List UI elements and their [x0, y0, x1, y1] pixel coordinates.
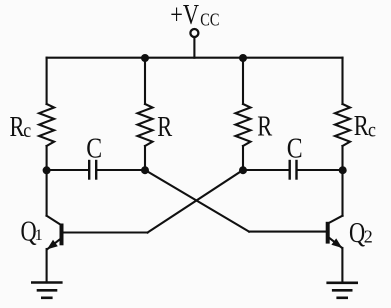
junction dot rail-R2	[141, 54, 149, 62]
resistor Rc4	[335, 104, 350, 146]
resistor Rc1	[39, 104, 54, 146]
svg-text:R: R	[257, 111, 272, 142]
wire: Q1 emitter to ground	[46, 249, 48, 283]
capacitor C2 right wire	[298, 169, 343, 171]
svg-text:c: c	[23, 120, 31, 143]
transistor Q2 emitter arrowhead	[331, 238, 342, 248]
wire: R2 top lead	[144, 58, 146, 104]
wire: Q1 collector vertical	[46, 170, 48, 216]
wire: Rc4 bottom lead	[341, 146, 343, 170]
wire: Rc1 bottom lead	[46, 146, 48, 170]
svg-text:Q: Q	[349, 218, 365, 249]
wire: Rc4 top lead	[341, 58, 343, 104]
wire: Q2 collector diagonal	[330, 216, 343, 223]
wire: Q2 emitter diagonal	[329, 237, 342, 247]
svg-text:C: C	[86, 133, 102, 164]
svg-text:R: R	[157, 112, 172, 143]
junction dot rail-R3	[239, 54, 247, 62]
wire: Q2 base lead	[249, 231, 326, 233]
wire: R3 bottom lead	[242, 146, 244, 170]
wire: Q2 collector vertical	[341, 170, 343, 216]
junction dot node Rc4/C2	[339, 166, 347, 174]
wire: VCC stub	[193, 38, 195, 58]
transistor Q1 base bar	[60, 224, 64, 246]
svg-text:1: 1	[35, 225, 43, 244]
svg-text:CC: CC	[200, 9, 219, 30]
capacitor C1 right wire	[97, 169, 145, 171]
wire: Q1 collector diagonal	[47, 216, 60, 225]
svg-text:R: R	[10, 112, 25, 143]
junction dot node R3/C2	[239, 166, 247, 174]
wire: cross diagonal node R3 to Q1 base	[148, 170, 244, 233]
wire: Q1 base lead	[63, 231, 148, 233]
ground G1	[32, 283, 61, 298]
resistor R2	[138, 104, 153, 146]
wire: R3 top lead	[242, 58, 244, 104]
ground G2	[328, 283, 357, 298]
capacitor C2 left wire	[243, 169, 289, 171]
capacitor C1 left wire	[47, 169, 88, 171]
junction dot node R2/C1	[141, 166, 149, 174]
capacitor C2 right plate	[295, 161, 297, 179]
wire: R2 bottom lead	[144, 146, 146, 170]
VCC terminal circle	[190, 29, 198, 37]
svg-text:R: R	[354, 111, 369, 142]
resistor R3	[236, 104, 251, 146]
capacitor C2 left plate	[289, 161, 291, 179]
capacitor C1 left plate	[88, 161, 90, 179]
wire: cross diagonal node R2 to Q2 base	[145, 170, 249, 232]
capacitor C1 right plate	[95, 161, 97, 179]
svg-text:+V: +V	[170, 0, 199, 31]
junction dot node Rc1/C1	[43, 166, 51, 174]
transistor Q1 emitter arrowhead	[47, 240, 58, 250]
svg-text:2: 2	[364, 226, 373, 246]
wire: Q1 emitter diagonal	[48, 239, 61, 249]
wire: Q2 emitter to ground	[341, 248, 343, 283]
transistor Q2 base bar	[326, 222, 330, 244]
wire: Rc1 top lead	[46, 58, 48, 104]
svg-text:C: C	[287, 133, 303, 164]
wire: top rail	[47, 57, 343, 59]
svg-text:c: c	[368, 119, 376, 142]
